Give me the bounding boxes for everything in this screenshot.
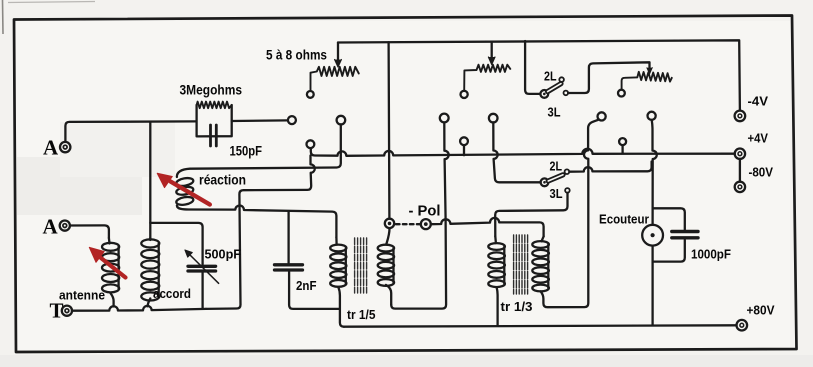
jack: right socket filament (bottom) + stem <box>619 138 626 145</box>
jack: - Pol left <box>385 219 394 228</box>
wire: left Pol jack down to tr1/5 secondary top <box>386 228 389 244</box>
terminal +80V <box>737 320 748 331</box>
svg-text:5 à 8 ohms: 5 à 8 ohms <box>266 47 327 63</box>
svg-text:A: A <box>43 136 59 160</box>
jack: middle socket grid (right) <box>489 114 498 123</box>
transformer tr 1/5 : primary coil <box>330 245 346 252</box>
switch S1 contact 2L <box>559 77 564 82</box>
wire: A antenna terminal to antenna coil <box>70 225 109 238</box>
jack: R2 lower end plug <box>461 91 468 98</box>
wire: parallel box of 3Megohms/150pF <box>197 105 232 136</box>
svg-text:+80V: +80V <box>747 304 776 318</box>
svg-text:3L: 3L <box>550 186 563 201</box>
jack: middle socket plate (left) <box>440 114 449 123</box>
wire: accord top to 500pF <box>150 223 202 264</box>
jack: left socket filament (bottom) <box>307 140 315 148</box>
red arrow (antenna coupling) <box>89 247 125 277</box>
wire: right socket grid jack down to earphone <box>652 120 657 225</box>
svg-text:- Pol: - Pol <box>409 204 441 220</box>
wire: +4V to -80V link <box>739 159 741 182</box>
switch S1 contact 3L <box>564 91 569 96</box>
wire: S2 2L contact to earphone line (hops tr1/3 vertical) <box>569 162 651 172</box>
arrow of variable capacitor <box>190 255 219 284</box>
switch S1 lever <box>548 84 561 92</box>
wire: left socket bottom jack to tank bottom rail (long path) <box>206 156 315 309</box>
terminal A (top, grid input) <box>60 142 70 152</box>
wire: +4V bus (y~155) <box>311 148 735 156</box>
jack: - Pol right <box>421 219 431 229</box>
wire: middle socket left jack down to tr1/5 secondary bottom <box>391 123 449 309</box>
transformer tr 1/3 : secondary coil <box>532 241 549 248</box>
capacitor 2nF with leads <box>287 212 289 263</box>
jack: middle socket filament (bottom) + stem <box>460 137 468 145</box>
terminal -80V <box>735 182 745 192</box>
svg-text:2nF: 2nF <box>296 279 317 293</box>
wire: - Pol dashed link <box>396 223 420 225</box>
scan artifact lines (decorative) <box>8 2 95 3</box>
terminal T <box>62 306 72 316</box>
switch S2 contact 3L <box>565 188 570 193</box>
rheostat R2 : element <box>464 65 510 91</box>
svg-text:3Megohms: 3Megohms <box>180 82 243 98</box>
coil accord (L2) with top lead <box>149 122 151 238</box>
svg-text:accord: accord <box>153 287 191 301</box>
terminal A (antenna) <box>60 221 70 231</box>
svg-text:antenne: antenne <box>59 289 105 303</box>
svg-text:500pF: 500pF <box>205 248 242 262</box>
svg-text:2L: 2L <box>550 159 563 174</box>
jack: left socket plate (left) <box>288 116 296 124</box>
svg-text:1000pF: 1000pF <box>691 248 731 262</box>
jack: right socket grid (right) <box>648 112 656 120</box>
transformer tr 1/5 : core <box>355 238 367 293</box>
wire top -4V bus <box>338 40 740 110</box>
wire: middle socket right jack to switch S2 pivot <box>493 122 540 182</box>
wire: tank bottom rail to T jack with junction bumps <box>72 306 206 311</box>
svg-text:Ecouteur: Ecouteur <box>599 213 649 227</box>
svg-text:150pF: 150pF <box>230 144 263 159</box>
svg-text:T: T <box>50 299 64 323</box>
wire: A terminal to 3Megohms box <box>65 121 196 141</box>
red arrow (reaction adjust) <box>157 173 210 204</box>
rheostat R1 5 a 8 ohms : wiper arm <box>337 43 339 60</box>
switch S2 lever <box>548 175 563 181</box>
wire: S2 3L contact down-left to tr1/3 primary top <box>495 193 567 237</box>
transformer tr 1/3 : primary coil <box>488 243 505 250</box>
jack: left socket grid (right) <box>337 116 346 125</box>
wire: S1 3L contact to rheostat R3 wiper <box>568 62 649 93</box>
jack: R3 lower end plug <box>618 90 625 97</box>
terminal -4V <box>735 111 746 122</box>
wire: Pol bus with hops to tr1/3 secondary top <box>431 218 544 236</box>
svg-text:2L: 2L <box>544 69 557 84</box>
switch S2 contact 2L <box>565 169 570 174</box>
switch S1 (2L/3L upper) feed wire from top bus <box>525 41 540 94</box>
transformer tr 1/3 : core <box>514 235 528 294</box>
resistor 3Megohms (zigzag on box top) <box>197 102 232 109</box>
jack: right socket plate (left) <box>598 112 606 120</box>
terminal +4V <box>735 149 745 159</box>
rheostat R2 : wiper arm <box>491 42 493 57</box>
capacitor 150pF (plates) <box>209 125 212 146</box>
svg-text:A: A <box>43 215 59 239</box>
coil reaction (L3) with leads <box>177 124 341 177</box>
wire: vertical from top bus to grid jack (left Pol) <box>387 42 390 218</box>
transformer tr 1/5 : secondary coil <box>378 245 394 252</box>
jack: R1 lower end plug <box>307 91 314 98</box>
capacitor 1000pF branch <box>653 208 685 229</box>
switch S1 pivot <box>540 90 548 98</box>
svg-text:+4V: +4V <box>748 132 769 146</box>
earphone Ecouteur symbol <box>642 225 663 246</box>
svg-text:-4V: -4V <box>748 95 769 109</box>
rheostat R1 5 a 8 ohms : element <box>311 67 359 91</box>
capacitor 500pF variable (plates) <box>188 265 216 268</box>
wire: box output to left socket left jack <box>232 119 288 122</box>
rheostat R3 : element <box>622 72 672 90</box>
coil antenne (L1) <box>102 243 119 251</box>
svg-text:3L: 3L <box>548 105 561 120</box>
wire: +80V bus <box>344 325 737 326</box>
svg-text:tr 1/3: tr 1/3 <box>501 300 533 314</box>
switch S2 (2L/3L lower) pivot <box>541 178 549 186</box>
svg-text:tr 1/5: tr 1/5 <box>347 308 376 322</box>
svg-text:-80V: -80V <box>749 166 774 180</box>
svg-text:réaction: réaction <box>199 173 246 188</box>
wire: 500pF bottom to rail <box>201 273 203 309</box>
